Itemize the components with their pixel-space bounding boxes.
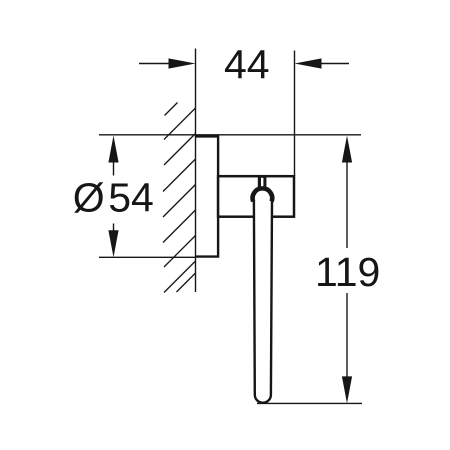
hatch line 4 xyxy=(163,185,196,218)
dim 119 line lower xyxy=(346,293,348,390)
dim 119 line upper xyxy=(346,150,348,248)
holder body xyxy=(218,176,294,217)
wall line xyxy=(195,49,197,293)
hatch line 1 xyxy=(164,108,196,140)
pivot pin slot xyxy=(261,178,263,186)
pivot pin xyxy=(258,177,267,188)
roll holder arm (rod) xyxy=(254,201,272,403)
hatch stub top xyxy=(165,103,178,116)
arrowhead dia54 up xyxy=(108,136,118,163)
dim 44 right tail xyxy=(318,63,349,65)
extension line 44 right xyxy=(294,51,296,177)
svg-text:44: 44 xyxy=(224,42,270,88)
arrowhead 119 up xyxy=(342,136,352,163)
svg-text:119: 119 xyxy=(315,249,380,295)
dim dia54 line upper xyxy=(113,150,115,176)
dim 44 left tail xyxy=(139,63,172,65)
svg-text:Ø54: Ø54 xyxy=(73,175,154,221)
arrowhead 44 right xyxy=(295,58,322,68)
hatch line 7 xyxy=(164,261,196,293)
dim dia54 line lower xyxy=(113,224,115,241)
hatch stub bottom xyxy=(177,273,196,292)
pivot hook arc xyxy=(253,188,273,201)
wall plate (escutcheon) xyxy=(196,136,219,256)
hatch line 6 xyxy=(164,236,196,268)
extension line top (dia54 top / 119 top) xyxy=(99,134,361,136)
extension line dia54 bottom xyxy=(99,256,196,258)
arrowhead dia54 down xyxy=(108,230,118,257)
hatch line 3 xyxy=(163,159,196,192)
arrowhead 44 left xyxy=(169,58,196,68)
extension line 119 bottom xyxy=(257,402,362,404)
hatch line 5 xyxy=(163,210,196,243)
arrowhead 119 down xyxy=(342,376,352,403)
hatch line 2 xyxy=(164,134,196,166)
